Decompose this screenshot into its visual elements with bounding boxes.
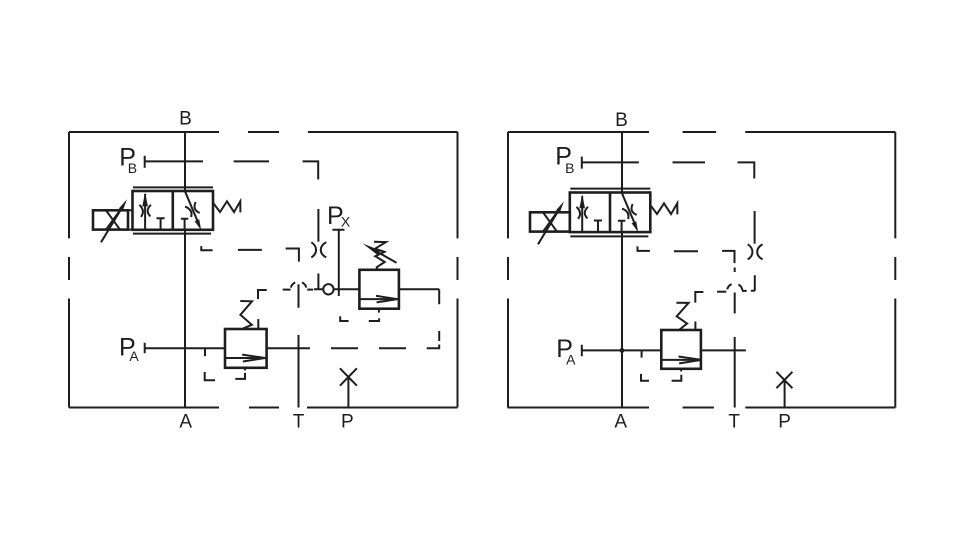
svg-text:T: T — [293, 411, 305, 432]
pilot line vertical above orifice (right) — [754, 211, 756, 244]
junction stub on PA line (left) — [204, 348, 206, 356]
reducing valve body (left) — [225, 329, 267, 368]
plugged port X symbol above P (right) — [776, 372, 792, 388]
DV1 left cell flow arrow (left) — [144, 194, 146, 230]
reducing valve inner arrowhead (left) — [242, 355, 265, 362]
relief valve body (left) — [359, 270, 399, 309]
DV1 right cell blocked port (left) — [181, 219, 188, 230]
dashed line from directional valve to T line (right) — [638, 246, 735, 263]
svg-text:P: P — [341, 411, 354, 432]
DV2 right cell throttle arcs (right) — [622, 204, 637, 220]
reducing valve inner flow line (left) — [225, 357, 267, 359]
reducing valve drain dashed (right) — [641, 369, 681, 381]
DV1 right cell diagonal flow path (left) — [185, 191, 199, 225]
pilot dashed line from reducing valve top with hop over T line (right) — [695, 268, 742, 331]
wire: T line long-dashed vertical (left) — [298, 284, 300, 407]
orifice )( symbol (left) — [311, 242, 326, 257]
reducing valve spring (left) — [240, 301, 252, 328]
DV2 body and divider (right) — [570, 193, 651, 233]
svg-text:B: B — [615, 110, 628, 131]
wire: PB gauge line with end tick (left) — [145, 156, 203, 168]
wire: PX port line with top tick (left) — [332, 230, 344, 296]
wire: circle to relief valve inlet (left) — [334, 288, 360, 290]
DV1 left cell throttle arcs (left) — [139, 205, 151, 217]
wire: PA line with end tick to reducing valve (left) — [145, 343, 225, 354]
proportional solenoid box (left) — [93, 210, 128, 229]
junction dot at A line crossing (right) — [620, 348, 625, 353]
proportional adjustment arrow (right) — [538, 211, 558, 244]
wire: port B to port A vertical line (right) — [621, 132, 623, 408]
wire: P port vertical line (left) — [347, 377, 349, 408]
orifice )( symbol (right) — [748, 244, 763, 259]
svg-text:X: X — [341, 214, 351, 230]
DV2 right cell diagonal flow path (right) — [622, 193, 636, 227]
dashed return from relief outlet to reduced-pressure line (left) — [331, 331, 439, 348]
svg-text:T: T — [728, 412, 740, 433]
wire: reducing valve outlet stub (left) — [267, 347, 310, 349]
DV2 left cell throttle arcs (right) — [577, 207, 589, 219]
DV1 right cell throttle arcs (left) — [185, 202, 200, 218]
svg-text:A: A — [129, 348, 139, 364]
svg-text:B: B — [565, 160, 574, 176]
gauge connection circle (left) — [323, 284, 333, 294]
directional valve DV2 (right) — [530, 189, 677, 245]
reducing valve inner arrowhead (right) — [679, 357, 702, 364]
wire: P port vertical line (right) — [784, 380, 786, 408]
reducing valve inner flow line (right) — [661, 359, 701, 361]
svg-text:A: A — [566, 352, 576, 368]
wire: port B to port A vertical line (left) — [184, 132, 186, 408]
pilot line PB to orifice, dashed (right) — [673, 162, 755, 178]
reducing valve drain dashed (left) — [205, 368, 245, 381]
relief valve spring (left) — [374, 242, 386, 269]
DV1 infinite-positioning parallel lines (left) — [133, 187, 213, 233]
wire: relief valve outlet going right and down (left) — [399, 289, 439, 304]
manifold boundary (right circuit enclosure, dashed plate outline) — [508, 132, 896, 408]
relief valve inner arrowhead (left) — [376, 296, 397, 303]
DV2 infinite-positioning parallel lines (right) — [570, 189, 650, 237]
DV2 left cell flow arrow (right) — [581, 196, 583, 232]
solenoid cross X (right) — [543, 213, 557, 232]
wire: PA line with end tick to reducing valve (right) — [582, 345, 662, 357]
DV1 left cell blocked port (left) — [157, 218, 165, 230]
reducing valve spring (right) — [676, 303, 688, 330]
wire: PB gauge line with end tick (right) — [582, 157, 639, 169]
manifold boundary (left circuit enclosure, dashed plate outline) — [69, 132, 458, 408]
plugged port X symbol above P (left) — [340, 368, 357, 385]
dashed line from directional valve to T line (left) — [201, 246, 299, 262]
svg-text:B: B — [128, 160, 137, 176]
wire: orifice down to pilot junction (right) — [742, 275, 755, 291]
svg-text:A: A — [614, 412, 627, 433]
wire: reducing valve outlet stub (right) — [701, 349, 746, 351]
pilot line vertical above orifice (left) — [317, 209, 319, 242]
proportional adjustment arrow (left) — [101, 209, 121, 242]
relief valve adjustment arrow (left) — [379, 253, 397, 263]
DV1 body and divider (left) — [133, 191, 214, 230]
DV2 return spring (right) — [650, 203, 677, 214]
solenoid cross X (left) — [106, 211, 120, 230]
pilot dashed line from reducing valve top with hop over T line (left) — [258, 282, 313, 329]
DV2 left cell blocked port (right) — [594, 221, 602, 233]
pilot line PB to orifice, dashed (left) — [234, 161, 319, 179]
relief valve inner flow line (left) — [359, 298, 399, 300]
proportional solenoid box (right) — [530, 212, 570, 231]
junction stub on PA line (right) — [641, 350, 643, 357]
wire: orifice down to junction (left) — [314, 274, 323, 290]
DV2 right cell blocked port (right) — [618, 221, 625, 232]
relief valve drain dashed (left) — [340, 309, 379, 321]
DV1 return spring (left) — [213, 201, 240, 212]
reducing valve body (right) — [661, 330, 701, 369]
directional valve DV1 (left) — [93, 187, 240, 242]
svg-text:P: P — [778, 412, 791, 433]
wire: T line long-dashed vertical (right) — [734, 293, 736, 408]
svg-text:A: A — [179, 411, 192, 432]
svg-text:B: B — [179, 109, 192, 130]
